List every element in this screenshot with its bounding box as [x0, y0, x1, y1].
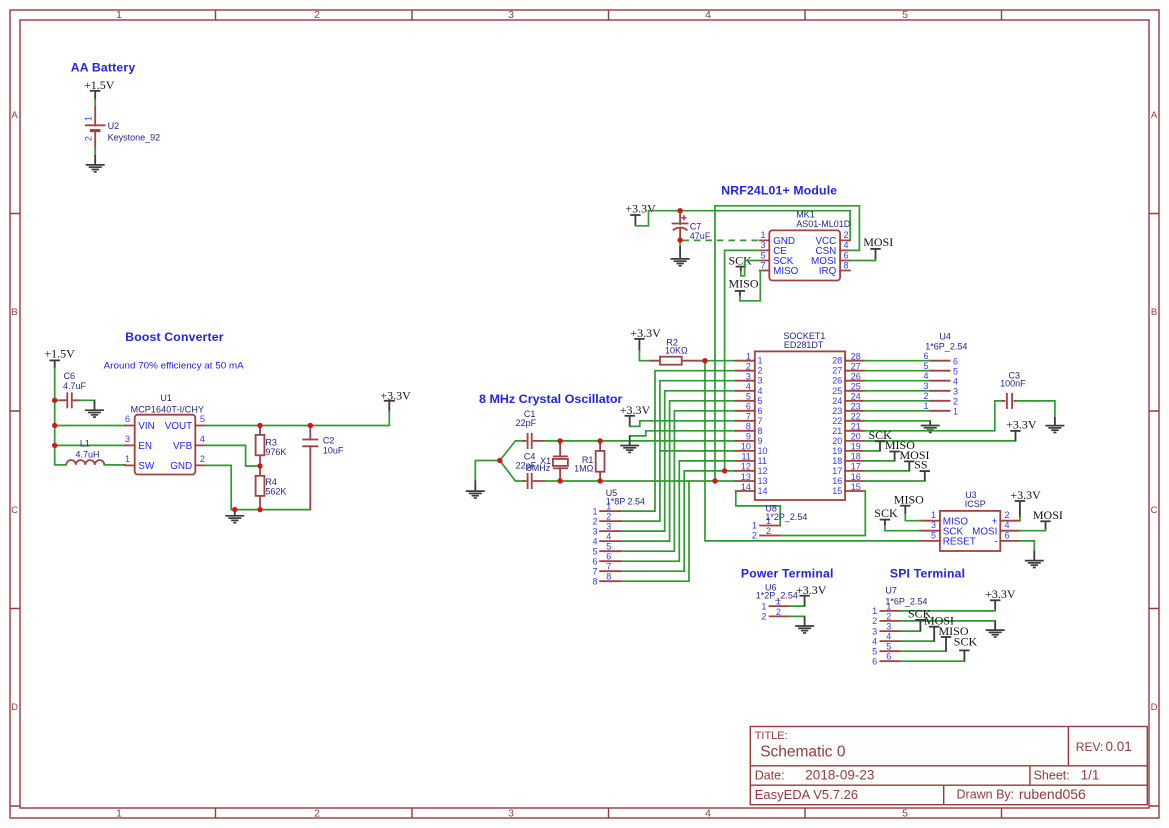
wire U7 pin4 [900, 640, 934, 642]
capacitor C7 polarized [672, 211, 689, 240]
wire row6 to U5 pin5 [620, 411, 736, 551]
wire row2 to U5 pin1 [620, 371, 736, 511]
svg-text:REV:: REV: [1076, 740, 1104, 754]
ground (C7) [671, 246, 690, 266]
junction VOUT/R3 [257, 423, 262, 428]
svg-text:12: 12 [776, 597, 781, 617]
wire +3.3V to R2 [639, 351, 650, 361]
connector U7 pin stubs [880, 611, 900, 661]
resistor R2 [650, 357, 705, 365]
wire C7 to ground [679, 240, 681, 246]
wire row21 to C3 [864, 401, 1003, 431]
wire row16 [864, 480, 925, 482]
svg-text:SCK: SCK [874, 506, 898, 520]
crystal X1 [553, 441, 568, 481]
junction X1 bottom [557, 478, 562, 483]
wire battery pin 2 to ground [94, 149, 96, 155]
net flag SS (row16) [914, 458, 930, 481]
svg-text:631: 631 [125, 414, 130, 464]
wire row5 to U5 pin4 [620, 401, 736, 541]
svg-text:22pF: 22pF [516, 418, 537, 428]
TITLE BLOCK [750, 727, 1147, 805]
ground (U3 pin6) [1025, 551, 1044, 568]
junction R4 bottom [257, 507, 262, 512]
ground (C6) [85, 400, 104, 417]
wire RESET vertical [705, 361, 920, 541]
wire U3 pin4 to MOSI flag [1020, 530, 1046, 531]
svg-text:+1.5V: +1.5V [44, 347, 75, 361]
wire row 28-23 to U4 [864, 361, 931, 411]
ground (crystal) [466, 481, 485, 498]
net flag SCK (row19) [869, 428, 893, 451]
SOCKET1 pin stubs left 1-14 [736, 361, 755, 491]
svg-text:12345678: 12345678 [606, 502, 611, 582]
power flag +3.3V (U7) [985, 587, 1016, 609]
wire row17 [864, 470, 909, 472]
power flag +3.3V (U6) [796, 583, 827, 606]
net flag MISO (row18) [885, 438, 915, 461]
wire XTAL2 row13 [545, 480, 736, 482]
resistor R3 [256, 426, 265, 467]
junction C7 bottom [677, 237, 682, 242]
wire row8 gnd hook [630, 431, 736, 436]
svg-text:AS01-ML01D: AS01-ML01D [796, 219, 851, 229]
junction crystal left [497, 458, 502, 463]
power flag +3.3V (row20) [1006, 417, 1037, 441]
svg-text:2: 2 [84, 136, 94, 141]
wire MISO flag hook to pin 7 [740, 271, 760, 301]
svg-text:654321: 654321 [923, 351, 928, 411]
svg-text:MCP1640T-I/CHY: MCP1640T-I/CHY [131, 404, 204, 414]
net flag MOSI (row17) [900, 448, 930, 471]
wire U6 pin2 to ground [790, 615, 805, 617]
svg-text:SPI Terminal: SPI Terminal [890, 566, 965, 580]
wire +3.3V to VCC net [635, 211, 850, 241]
wire diagonal to XTAL1 [500, 441, 524, 461]
svg-text:U1: U1 [160, 393, 172, 403]
svg-text:+3.3V: +3.3V [1006, 417, 1037, 431]
net flag MOSI (U3) [1033, 508, 1063, 529]
svg-text:246: 246 [1005, 510, 1010, 540]
title block drawnby separator [943, 785, 945, 805]
svg-text:Sheet:: Sheet: [1034, 768, 1070, 782]
svg-text:C6: C6 [64, 371, 76, 381]
junction R1 top [597, 438, 602, 443]
title block rev separator [1067, 727, 1069, 766]
junction C7 top [677, 208, 682, 213]
svg-text:SCK: SCK [954, 635, 978, 649]
svg-text:2018-09-23: 2018-09-23 [805, 768, 874, 783]
title block outline [750, 727, 1147, 805]
capacitor C3 [1003, 393, 1017, 409]
net flag MISO (U3) [894, 492, 924, 514]
svg-text:4.7uH: 4.7uH [76, 449, 100, 459]
power flag +1.5V (battery) [84, 78, 115, 100]
svg-text:2468: 2468 [844, 230, 849, 270]
svg-text:10KΩ: 10KΩ [665, 346, 688, 356]
svg-text:U7: U7 [885, 586, 897, 596]
svg-text:12: 12 [752, 521, 757, 541]
MK1 pin stubs left [760, 240, 770, 270]
wire rail to EN [55, 444, 125, 446]
wire GND net (boost bottom) [205, 465, 310, 509]
svg-text:Drawn By:: Drawn By: [957, 788, 1015, 802]
svg-text:12345678: 12345678 [592, 506, 597, 586]
net flag SCK (U7 pin6) [954, 635, 978, 662]
U3 pin stubs left [920, 521, 940, 541]
svg-text:8MHz: 8MHz [527, 463, 551, 473]
ground (C3) [1045, 417, 1064, 432]
wire U7 pin3 [900, 630, 920, 632]
power flag +3.3V (vcc row7) [620, 403, 651, 426]
wire +1.5V rail (left) [55, 368, 66, 465]
net flag MISO (nrf) [729, 276, 759, 296]
svg-text:8 MHz Crystal Oscillator: 8 MHz Crystal Oscillator [479, 392, 623, 406]
svg-text:123456: 123456 [872, 606, 877, 666]
junction RESET node [702, 358, 707, 363]
ground (U6) [795, 616, 814, 633]
net flag SCK (U3) [874, 506, 898, 526]
svg-text:R3: R3 [265, 438, 277, 448]
svg-text:EasyEDA V5.7.26: EasyEDA V5.7.26 [755, 787, 858, 802]
wire +3.3V to U3 pin2 [1019, 517, 1021, 521]
connector U6 pin stubs [770, 606, 790, 616]
wire U7 pin6 [900, 660, 964, 662]
wire VFB net [205, 445, 260, 466]
wire row4 to U5 pin3 [620, 391, 736, 531]
net flag MISO (U7 pin5) [939, 624, 969, 651]
wire rail to VIN [55, 425, 125, 427]
wire row22 to ground [864, 420, 930, 422]
svg-text:C7: C7 [690, 222, 702, 232]
svg-text:10uF: 10uF [323, 445, 344, 455]
wire SCK flag hook to pin 5 [741, 261, 760, 276]
svg-text:SS: SS [914, 458, 927, 472]
svg-text:TITLE:: TITLE: [755, 730, 788, 742]
svg-text:Around 70% efficiency at 50 mA: Around 70% efficiency at 50 mA [104, 360, 245, 371]
svg-text:Schematic 0: Schematic 0 [760, 744, 846, 761]
svg-text:U4: U4 [939, 331, 951, 341]
wire row14 to U8 pin1 [736, 491, 780, 526]
net flag SCK (nrf) [729, 253, 753, 272]
IC U3 ICSP body [940, 511, 1000, 551]
wire U7 pin2 to ground [900, 620, 995, 622]
power flag +3.3V (nrf) [625, 202, 656, 226]
power flag +1.5V (boost) [44, 347, 75, 369]
power flag +3.3V (U3) [1010, 488, 1041, 517]
svg-text:1/1: 1/1 [1081, 768, 1100, 783]
U3 pin stubs right [1000, 521, 1020, 541]
battery U2 pin 2 [94, 131, 96, 149]
svg-text:1: 1 [84, 116, 94, 121]
IC SOCKET1 ED281DT body [755, 351, 845, 500]
wire row10 stub left [660, 450, 736, 452]
capacitor C6 [61, 392, 79, 408]
title block row line 2 [750, 784, 1147, 786]
svg-text:562K: 562K [265, 486, 286, 496]
svg-text:12: 12 [761, 601, 766, 621]
svg-text:1*8P 2.54: 1*8P 2.54 [606, 496, 645, 506]
svg-text:MISO: MISO [894, 492, 924, 506]
junction VFB/R3/R4 [257, 463, 262, 468]
dashed wire C7 to GND pin [682, 239, 759, 241]
wire VOUT net [205, 411, 389, 426]
ground (battery) [86, 155, 105, 172]
ground (row22) [921, 421, 940, 433]
connector U5 pin stubs [600, 511, 620, 581]
wire CE net (to socket) [725, 250, 760, 471]
svg-text:976K: 976K [265, 447, 286, 457]
junction CE/row12 [722, 468, 727, 473]
junction EN/rail [52, 443, 57, 448]
wire U7 pin1 to +3.3V [900, 610, 995, 611]
wire row19 [864, 450, 880, 452]
svg-text:4.7uF: 4.7uF [63, 381, 87, 391]
svg-text:+3.3V: +3.3V [630, 326, 661, 340]
resistor R4 [256, 466, 265, 510]
wire CSN net (to socket) [715, 206, 859, 481]
wire row13 to U5 pin8 [620, 481, 689, 581]
capacitor C1 [523, 433, 544, 449]
svg-text:Keystone_92: Keystone_92 [108, 132, 161, 142]
svg-text:1*6P_2.54: 1*6P_2.54 [925, 341, 967, 351]
svg-text:542: 542 [200, 414, 205, 464]
battery U2 plates [85, 125, 106, 130]
svg-text:+3.3V: +3.3V [620, 403, 651, 417]
plus sign of C7 [681, 215, 686, 220]
svg-text:2827262524232221201918171615: 2827262524232221201918171615 [851, 352, 861, 492]
wire row11 to U5 pin6 [620, 461, 736, 561]
svg-text:12345: 12345 [116, 9, 908, 21]
svg-text:2827262524232221201918171615: 2827262524232221201918171615 [832, 356, 842, 496]
svg-text:123456: 123456 [886, 601, 891, 661]
net flag SCK (U7 pin3) [908, 607, 932, 631]
wire row20 to +3.3V [864, 440, 1016, 442]
junction CSN/row13 [712, 478, 717, 483]
svg-text:MOSI: MOSI [863, 235, 893, 249]
connector U8 pin stubs [760, 526, 780, 536]
wire U7 pin5 [900, 650, 946, 652]
net flag MOSI (nrf right) [863, 235, 893, 260]
wire C3 to ground [1016, 401, 1055, 417]
wire MISO flag to U3 pin1 [905, 515, 920, 521]
svg-text:0.01: 0.01 [1106, 739, 1132, 754]
wire MOSI flag to pin 6 [850, 259, 876, 262]
title block row line 1 [750, 765, 1147, 767]
U1 pin stubs left [125, 426, 135, 466]
wire U3 pin6 to ground [1020, 541, 1034, 551]
svg-text:+3.3V: +3.3V [985, 587, 1016, 601]
svg-text:Boost Converter: Boost Converter [125, 330, 224, 344]
title block sheet separator [1029, 766, 1031, 785]
wire row7 vcc hook [630, 421, 736, 427]
wire C6 to ground [79, 399, 95, 401]
column ticks top [216, 10, 1002, 20]
junction VOUT/C2 [308, 423, 313, 428]
svg-text:U2: U2 [108, 121, 120, 131]
wire U6 pin1 to +3.3V [790, 605, 805, 607]
power flag +3.3V (R2 pullup) [630, 326, 661, 351]
ground (row8) [620, 436, 639, 453]
svg-text:Date:: Date: [755, 768, 785, 782]
U1 pin stubs right [195, 426, 205, 466]
svg-text:NRF24L01+ Module: NRF24L01+ Module [721, 183, 837, 197]
svg-text:654321: 654321 [953, 356, 958, 416]
svg-text:1MΩ: 1MΩ [574, 464, 594, 474]
capacitor C4 [523, 473, 544, 489]
resistor R1 [596, 441, 605, 481]
svg-text:L1: L1 [80, 439, 90, 449]
connector U4 pin stubs [931, 361, 950, 411]
SOCKET1 pin stubs right 28-15 [845, 361, 864, 491]
svg-text:AA Battery: AA Battery [71, 61, 136, 75]
svg-text:ED281DT: ED281DT [784, 340, 824, 350]
row ticks right [1149, 214, 1159, 807]
wire XTAL1 row9 [545, 440, 736, 442]
svg-text:1*6P_2.54: 1*6P_2.54 [885, 597, 927, 607]
net flag MOSI (U7 pin4) [924, 614, 954, 642]
svg-text:rubend056: rubend056 [1019, 786, 1086, 802]
svg-text:C2: C2 [323, 436, 335, 446]
MK1 pin stubs right [840, 240, 850, 270]
IC U1 MCP1640T [135, 415, 196, 475]
svg-text:12: 12 [766, 516, 771, 536]
wire U8 pin2 to row15 [780, 491, 865, 536]
wire diagonal to XTAL2 [500, 461, 524, 482]
wire row3 to U5 pin2 [620, 381, 736, 521]
power flag +3.3V (boost out) [380, 388, 411, 411]
svg-text:1357: 1357 [760, 230, 765, 270]
junction R1 bottom [597, 478, 602, 483]
wire C6 branch [55, 399, 61, 401]
capacitor C2 [302, 426, 318, 510]
svg-text:+3.3V: +3.3V [1010, 488, 1041, 502]
ground (U7 pin2) [986, 621, 1005, 637]
wire row1 to socket [705, 360, 736, 362]
wire row18 [864, 460, 895, 462]
junction ground tap [232, 507, 237, 512]
svg-text:1*2P_2.54: 1*2P_2.54 [765, 512, 807, 522]
junction VIN/rail [52, 423, 57, 428]
wire +1.5V to battery pin 1 [94, 100, 96, 108]
inductor L1 [66, 460, 104, 465]
svg-text:100nF: 100nF [1000, 379, 1026, 389]
svg-text:135: 135 [931, 510, 936, 540]
svg-text:MOSI: MOSI [1033, 508, 1063, 522]
IC MK1 AS01-ML01D [769, 230, 840, 280]
battery U2 pin 1 [94, 107, 96, 125]
wire L1 to SW [104, 464, 125, 466]
row ticks left [10, 214, 20, 807]
wire row12 to U5 pin7 [620, 471, 736, 571]
column ticks bottom [216, 808, 1002, 818]
ground (boost) [225, 510, 244, 523]
wire crystal left to ground [475, 461, 500, 481]
svg-text:+3.3V: +3.3V [625, 202, 656, 216]
svg-text:Power Terminal: Power Terminal [741, 566, 834, 580]
junction X1 top [557, 438, 562, 443]
svg-text:ICSP: ICSP [965, 499, 986, 509]
junction C6/rail [52, 398, 57, 403]
svg-text:MISO: MISO [729, 276, 759, 290]
wire SCK flag to U3 pin3 [885, 526, 920, 531]
